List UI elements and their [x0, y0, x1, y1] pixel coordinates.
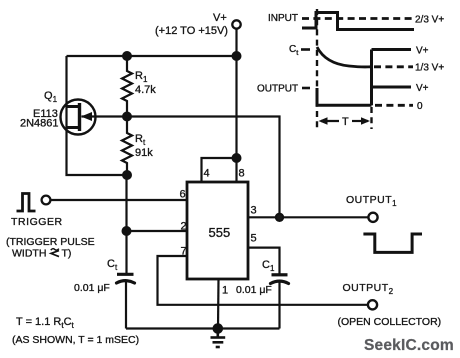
- svg-text:3: 3: [251, 205, 257, 217]
- T interval arrow: [319, 117, 371, 124]
- svg-text:1/3 V+: 1/3 V+: [415, 63, 444, 74]
- svg-text:5: 5: [251, 233, 257, 245]
- svg-text:T: T: [342, 116, 349, 128]
- transistor Q1: [61, 100, 96, 135]
- wire pin 3 to OUTPUT1: [248, 216, 369, 218]
- node pin8 top junction: [233, 154, 241, 162]
- svg-text:8: 8: [239, 168, 245, 180]
- svg-text:T = 1.1 RtCt: T = 1.1 RtCt: [16, 316, 75, 330]
- svg-text:V+: V+: [213, 12, 227, 24]
- OUTPUT label tick: [302, 87, 310, 90]
- Ct V+ top line: [372, 48, 412, 51]
- svg-text:6: 6: [180, 189, 186, 201]
- dashed marker T start: [316, 9, 318, 129]
- node R1-Rt-gate junction: [123, 113, 131, 121]
- wire trigger to pin 6: [51, 199, 188, 201]
- svg-text:2/3 V+: 2/3 V+: [415, 15, 444, 26]
- svg-text:(OPEN COLLECTOR): (OPEN COLLECTOR): [338, 316, 442, 328]
- dashed marker T end: [370, 107, 372, 129]
- svg-text:OUTPUT2: OUTPUT2: [343, 282, 394, 296]
- node pin2 junction: [123, 227, 131, 235]
- op 555 IC U1: [187, 182, 248, 279]
- svg-text:OUTPUT: OUTPUT: [257, 84, 298, 95]
- resistor Rt: [122, 117, 132, 176]
- OUTPUT2 terminal: [368, 300, 377, 309]
- svg-text:0: 0: [417, 101, 423, 112]
- svg-text:SeekIC.com: SeekIC.com: [364, 337, 454, 354]
- svg-text:V+: V+: [416, 46, 429, 57]
- wire gate to junction and across to output node: [82, 117, 280, 218]
- wire pin 7 to OUTPUT2: [158, 256, 369, 305]
- node Rt bottom junction: [123, 171, 131, 179]
- svg-text:4: 4: [204, 168, 210, 180]
- node pin3 junction: [276, 214, 283, 221]
- wire pin 1 down to ground: [217, 279, 220, 329]
- svg-text:0.01 μF: 0.01 μF: [236, 284, 272, 296]
- capacitor Ct: [117, 274, 135, 283]
- wire pin 2: [127, 230, 188, 232]
- Ct discharge curve: [317, 47, 372, 67]
- svg-text:2N4861: 2N4861: [20, 118, 59, 130]
- svg-text:(AS SHOWN, T = 1 mSEC): (AS SHOWN, T = 1 mSEC): [12, 334, 139, 346]
- trigger input pulse glyph: [17, 194, 36, 212]
- svg-text:INPUT: INPUT: [268, 13, 298, 24]
- INPUT waveform: [302, 13, 414, 30]
- solid edge at T end: [370, 50, 373, 106]
- OUTPUT V+ line: [372, 86, 412, 89]
- svg-text:91k: 91k: [135, 147, 153, 159]
- node rail-R1 junction: [123, 52, 131, 60]
- OUTPUT1 waveform glyph: [363, 234, 422, 252]
- OUTPUT waveform low: [317, 88, 372, 105]
- svg-text:OUTPUT1: OUTPUT1: [346, 194, 397, 208]
- wire ground bus: [126, 327, 280, 329]
- svg-text:V+: V+: [416, 83, 429, 94]
- svg-text:555: 555: [209, 225, 231, 240]
- svg-text:TRIGGER: TRIGGER: [11, 216, 63, 228]
- OUTPUT1 terminal: [368, 213, 377, 222]
- wire left branch to Q1 drain/source: [67, 56, 128, 175]
- V+ terminal: [232, 20, 240, 56]
- TRIGGER terminal: [42, 196, 51, 205]
- svg-text:(TRIGGER PULSE: (TRIGGER PULSE: [6, 236, 95, 248]
- svg-text:4.7k: 4.7k: [135, 84, 156, 96]
- dashed line 1/3 V+ level: [374, 65, 413, 68]
- dashed line 2/3 V+ level: [302, 17, 414, 20]
- wire Rt junction down to Ct: [125, 175, 127, 273]
- node rail-V+ junction: [233, 52, 241, 60]
- svg-text:2: 2: [181, 221, 187, 233]
- wire C1 down to ground bus: [278, 283, 280, 329]
- capacitor C1: [271, 275, 289, 284]
- svg-text:1: 1: [222, 285, 228, 297]
- svg-text:WIDTH: WIDTH: [12, 248, 46, 260]
- wire pins 4-8 top loop: [202, 158, 237, 182]
- wire top supply rail: [67, 55, 240, 57]
- svg-text:0.01 μF: 0.01 μF: [74, 282, 110, 294]
- wire V+ down to pin 8: [235, 56, 237, 182]
- wire Ct down to ground bus: [125, 282, 127, 329]
- wire pin 5 to C1: [248, 248, 280, 274]
- node ground junction: [214, 324, 222, 332]
- Ct label tick: [301, 48, 310, 51]
- svg-text:T): T): [62, 248, 72, 260]
- ground: [211, 329, 226, 348]
- resistor R1: [122, 56, 132, 117]
- dashed line 0 level: [375, 104, 413, 107]
- svg-text:(+12 TO +15V): (+12 TO +15V): [155, 25, 228, 37]
